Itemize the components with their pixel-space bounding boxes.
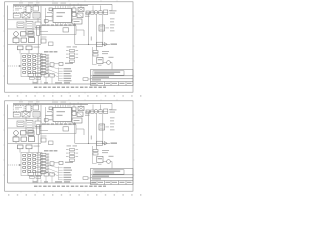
page 2 schematic sheet (duplicate) xyxy=(0,99,149,198)
page 1 schematic sheet xyxy=(0,0,149,99)
